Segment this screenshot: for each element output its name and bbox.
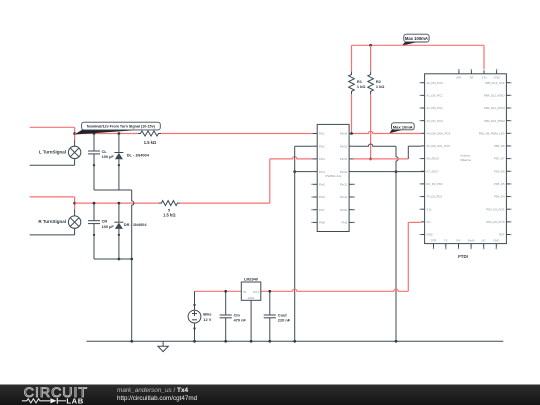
svg-text:A5_DI9_SCL_PC5: A5_DI9_SCL_PC5 [426, 144, 450, 148]
voltage regulator U3 LM2940 [241, 282, 260, 300]
svg-text:PD3_D3_INT1: PD3_D3_INT1 [486, 207, 505, 211]
svg-text:12 V: 12 V [203, 317, 211, 322]
svg-text:LAB: LAB [66, 397, 83, 405]
svg-text:Pin6: Pin6 [319, 195, 325, 199]
svg-text:Max 100mA: Max 100mA [405, 36, 428, 41]
wire ground rail [87, 340, 504, 342]
node DR rail junction [130, 258, 133, 261]
resistor R1 [349, 72, 355, 95]
svg-text:Nominal/12v From Turn Signal (: Nominal/12v From Turn Signal (10-15v) [87, 125, 156, 129]
svg-text:PB5_D13_SCK: PB5_D13_SCK [485, 81, 504, 85]
CircuitLab logo [22, 385, 88, 405]
svg-text:GND: GND [493, 239, 499, 243]
svg-text:Pin7: Pin7 [319, 208, 325, 212]
svg-text:Pin11: Pin11 [340, 195, 348, 199]
svg-text:FTDI: FTDI [458, 254, 468, 259]
svg-text:1 kΩ: 1 kΩ [376, 84, 385, 89]
svg-text:L TurnSignal: L TurnSignal [39, 149, 66, 154]
svg-text:Pin16: Pin16 [340, 132, 348, 136]
wire ground drop from DL rail [132, 190, 134, 259]
label DL value [127, 153, 150, 158]
wire RR to pin3 riser (red) [180, 159, 270, 203]
svg-text:RST: RST [499, 233, 505, 237]
label U1 name [325, 174, 341, 178]
capacitor CL [88, 134, 100, 167]
svg-text:1.5 kΩ: 1.5 kΩ [144, 140, 157, 145]
voltage source V1 Bike [188, 291, 201, 341]
wire pin14 to riser (red) [354, 158, 409, 160]
svg-text:GND: GND [426, 233, 432, 237]
footer bar [0, 385, 540, 405]
svg-text:Pin15: Pin15 [340, 144, 348, 148]
label Cin [234, 312, 247, 322]
svg-text:PB2_D10_PWM: PB2_D10_PWM [484, 119, 505, 123]
wire pin4 net [295, 171, 313, 173]
svg-text:Pin1: Pin1 [319, 132, 325, 136]
svg-text:PB1_D9_PWM_LED: PB1_D9_PWM_LED [479, 131, 505, 135]
node DR top [118, 202, 121, 205]
op-amp U2 FTDI Arduino module [419, 69, 511, 250]
svg-text:PB0_D8: PB0_D8 [494, 144, 505, 148]
resistor RR 1.5k [159, 201, 181, 206]
wire pin15 ground drop [396, 146, 398, 341]
wire pin15 jog [354, 144, 396, 146]
annotation Max 10mA label [389, 123, 414, 133]
svg-text:AR: AR [469, 75, 473, 79]
diode DL [114, 134, 123, 167]
node ground junctions [130, 340, 397, 343]
wire pin16 to FTDI A4 (red) [354, 131, 421, 133]
svg-text:GND: GND [493, 75, 499, 79]
capacitor Cout [264, 291, 276, 341]
wire R2 leads (red) [370, 45, 372, 159]
label Cout [278, 312, 291, 322]
node CL top [93, 132, 96, 135]
node R2 top [369, 44, 372, 47]
node R1 bottom junction [350, 132, 353, 135]
svg-text:Arduino: Arduino [460, 154, 470, 158]
svg-text:Pin8: Pin8 [319, 221, 325, 225]
wire pin13 to FTDI A7 [354, 171, 425, 173]
svg-text:Pin9: Pin9 [342, 221, 348, 225]
svg-text:Pin14: Pin14 [340, 157, 348, 161]
wire 3.3v rail top (red) [352, 45, 485, 69]
svg-text:DL - 1N4004: DL - 1N4004 [127, 153, 150, 158]
svg-text:1 kΩ: 1 kΩ [357, 84, 366, 89]
svg-text:IN: IN [243, 290, 246, 294]
label CL value [102, 149, 115, 159]
svg-text:TX: TX [444, 239, 448, 243]
label RR value [163, 213, 176, 218]
node Cin top [224, 290, 227, 293]
svg-text:3.3v: 3.3v [481, 75, 487, 79]
svg-text:RX_D0_PD0: RX_D0_PD0 [426, 182, 442, 186]
svg-text:Pin2: Pin2 [319, 144, 325, 148]
label V1 Bike [203, 312, 212, 322]
op-amp U1 PS2801-4 optocoupler [311, 124, 355, 231]
wire RL to PS2801 pin1 (red) [161, 133, 313, 135]
svg-text:A1_DI5_PC1: A1_DI5_PC1 [426, 93, 443, 97]
svg-text:3.3v: 3.3v [426, 207, 432, 211]
svg-text:A2_DI6_PC2: A2_DI6_PC2 [426, 106, 443, 110]
svg-text:100 µF: 100 µF [102, 154, 115, 159]
wire R node rail (red) [75, 202, 159, 204]
footer title text [117, 387, 198, 402]
svg-text:R TurnSignal: R TurnSignal [38, 219, 66, 224]
svg-text:DR - 1N4004: DR - 1N4004 [124, 222, 148, 227]
wire riser to FTDI A5 [408, 146, 421, 159]
label CR value [102, 219, 115, 229]
svg-text:PwIN: PwIN [468, 239, 475, 243]
wire R lamp return [30, 234, 75, 236]
svg-text:PB3_D11_MOSI: PB3_D11_MOSI [484, 106, 505, 110]
label U2 inner name [460, 154, 471, 162]
svg-text:Pin10: Pin10 [340, 208, 348, 212]
label R1 [357, 79, 366, 89]
svg-text:ANT: ANT [456, 75, 462, 79]
svg-text:100 µF: 100 µF [102, 224, 115, 229]
svg-text:OUT: OUT [253, 290, 259, 294]
svg-text:Pin3: Pin3 [319, 157, 325, 161]
wire R turn signal input (red) [30, 197, 75, 210]
wire 5v riser to FTDI Vin (red) [408, 222, 421, 291]
diode DR [114, 203, 123, 236]
svg-text:Pin12: Pin12 [340, 183, 348, 187]
label R2 [376, 79, 385, 89]
node Cout top [268, 290, 271, 293]
svg-text:A0_DI4_PC0: A0_DI4_PC0 [426, 81, 443, 85]
wire regulator OUT (red) [261, 289, 409, 291]
svg-text:http://circuitlab.com/cgt47md: http://circuitlab.com/cgt47md [117, 395, 198, 402]
node L input junction [73, 132, 76, 135]
label DR value [124, 222, 148, 227]
svg-text:mark_anderson_us / Tx4: mark_anderson_us / Tx4 [117, 387, 189, 394]
capacitor Cin [220, 291, 232, 341]
wire regulator IN (red) [195, 290, 242, 292]
label RL value [144, 140, 157, 145]
svg-text:PD6_D6: PD6_D6 [494, 169, 505, 173]
svg-text:Pin4: Pin4 [319, 170, 325, 174]
svg-text:470 nF: 470 nF [234, 318, 247, 323]
svg-text:Milanino: Milanino [460, 158, 471, 162]
svg-text:PD4_D4: PD4_D4 [494, 195, 505, 199]
wire regulator GND [250, 300, 252, 341]
ground [158, 341, 168, 351]
svg-text:PD2_D2_INT0: PD2_D2_INT0 [486, 220, 505, 224]
node DL top [118, 132, 121, 135]
capacitor CR [88, 203, 100, 236]
svg-text:LM2940: LM2940 [244, 278, 258, 282]
node CR top [93, 202, 96, 205]
svg-text:A4_DI8_SDA_PC4: A4_DI8_SDA_PC4 [426, 131, 450, 135]
svg-text:220 nF: 220 nF [278, 318, 291, 323]
node pin13 junction [395, 170, 398, 173]
svg-text:TX_D1_PD1: TX_D1_PD1 [426, 195, 442, 199]
svg-text:A6_ADC6: A6_ADC6 [426, 157, 439, 161]
node R2 bottom junction [369, 158, 372, 161]
wire pin2 net [295, 145, 313, 147]
lamp L TurnSignal [68, 140, 80, 166]
svg-text:PB4_D12_MISO: PB4_D12_MISO [484, 93, 506, 97]
lamp R TurnSignal [68, 209, 80, 235]
wire riser to PS2801 pin3 (red) [270, 157, 313, 159]
wire pin2 ground drop [294, 146, 296, 341]
svg-text:NC: NC [482, 239, 486, 243]
svg-text:Vin: Vin [426, 220, 430, 224]
label RR name [168, 209, 170, 213]
svg-text:PD7_D7: PD7_D7 [494, 157, 505, 161]
wire ground drop to rail [131, 259, 133, 341]
annotation Nominal 12v label [75, 122, 161, 134]
annotation Max 100mA label [401, 34, 429, 46]
svg-text:PD5_D5: PD5_D5 [494, 182, 505, 186]
wire R1 leads (red) [351, 45, 353, 133]
svg-text:Max 10mA: Max 10mA [393, 124, 413, 129]
resistor RL 1.5k [138, 131, 162, 136]
svg-text:Pin5: Pin5 [319, 183, 325, 187]
svg-text:PS2801-4-H: PS2801-4-H [325, 174, 341, 178]
wire L lamp return [30, 164, 75, 166]
svg-text:DTR: DTR [431, 239, 437, 243]
wire CR DR bottom rail [94, 235, 132, 261]
label FTDI [458, 254, 468, 259]
svg-text:A7_ADC7: A7_ADC7 [426, 169, 439, 173]
label R TurnSignal [38, 219, 66, 224]
label LM2940 [244, 278, 258, 282]
wire L node rail (red) [75, 133, 138, 135]
svg-text:1.5 kΩ: 1.5 kΩ [163, 213, 176, 218]
svg-text:RX: RX [457, 239, 461, 243]
wire L turn signal input (red) [30, 127, 75, 139]
svg-text:GND: GND [248, 296, 254, 300]
svg-text:A3_DI7_PC3: A3_DI7_PC3 [426, 119, 443, 123]
wire CL DL bottom rail [94, 165, 132, 190]
node R input junction [73, 202, 76, 205]
label L TurnSignal [39, 149, 66, 154]
resistor R2 [368, 72, 374, 95]
node pin4 junction [293, 170, 296, 173]
